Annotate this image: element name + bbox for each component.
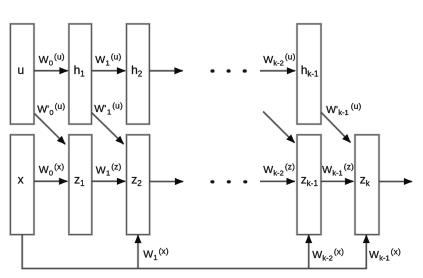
wire h2 to dots: [149, 70, 182, 73]
box h k-1: [297, 24, 321, 124]
wire z2 to dots: [150, 180, 184, 183]
box h2: [127, 24, 150, 124]
svg-text:x: x: [18, 173, 24, 187]
diagonal wire u to z1: [34, 114, 65, 145]
box x: [10, 135, 34, 235]
dots bottom row: [210, 180, 248, 184]
box z k-1: [297, 135, 321, 235]
box z2: [127, 135, 150, 235]
diagonal wire h k-1 to z k: [321, 112, 351, 142]
svg-text:u: u: [18, 63, 25, 77]
wire z k-1 to z k: [321, 180, 353, 183]
box h1: [69, 24, 92, 124]
wire z1 to z2: [92, 180, 126, 183]
wire x to z1: [34, 180, 67, 183]
box z k: [355, 135, 379, 235]
diagonal wire dots to z k-1: [263, 112, 295, 143]
wire x bottom bus: [22, 235, 366, 269]
wire u to h1: [34, 69, 68, 72]
dots top row: [210, 69, 247, 73]
wire dots to z k-1: [260, 180, 295, 183]
wire h1 to h2: [92, 69, 126, 72]
wire dots to h k-1: [260, 70, 295, 73]
wire z k output: [379, 180, 412, 183]
box u: [10, 24, 34, 124]
wire bus up to z k: [365, 235, 368, 269]
wire bus up to z k-1: [307, 235, 310, 269]
diagonal wire h1 to z2: [92, 113, 124, 145]
wire bus up to z2: [137, 235, 140, 269]
box z1: [69, 135, 92, 235]
